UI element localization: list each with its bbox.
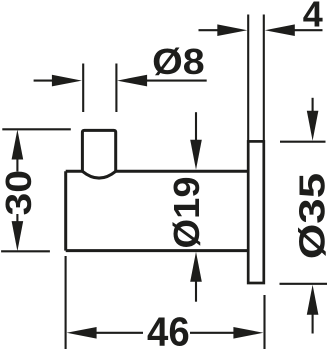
svg-text:30: 30 [0, 170, 39, 216]
dimension Ø8: right arrow with tail [146, 80, 207, 82]
dimension 30: down arrow [16, 214, 18, 222]
dimension 46: right arrow [190, 332, 235, 334]
dimension Ø19: down arrow above body [195, 112, 197, 141]
dimension Ø35: up arrow [307, 285, 319, 315]
svg-text:Ø35: Ø35 [291, 173, 330, 260]
wall plate (Ø35 rosette, 4 thick) [248, 141, 264, 283]
dimension Ø8: extension lines [83, 64, 116, 113]
svg-text:46: 46 [147, 309, 190, 350]
dimension Ø19: up arrow below body [190, 252, 202, 282]
svg-text:Ø19: Ø19 [166, 177, 207, 249]
svg-text:Ø8: Ø8 [152, 41, 205, 82]
svg-text:4: 4 [303, 0, 323, 35]
hook peg (Ø8 pin) with base arc [82, 130, 115, 178]
dimension Ø35: down arrow [312, 98, 314, 112]
dimension 4: right arrow with tail [294, 29, 323, 31]
dimension 4: left arrow [199, 29, 219, 31]
dimension 4: extension lines [248, 15, 264, 142]
dimension 30: extension lines [1, 129, 71, 251]
dimension 46: extension lines [66, 256, 265, 349]
hook body outline (Ø19 cylinder, side view) [66, 171, 249, 250]
dimension 30: up arrow [12, 130, 24, 160]
dimension Ø35: extension lines [280, 142, 328, 284]
dimension 46: left arrow [67, 327, 97, 339]
dimension Ø8: left arrow [34, 80, 52, 82]
